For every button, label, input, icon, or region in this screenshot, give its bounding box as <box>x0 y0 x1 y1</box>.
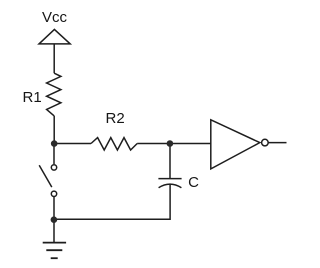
svg-text:Vcc: Vcc <box>42 9 68 26</box>
svg-text:R2: R2 <box>106 110 125 127</box>
svg-text:C: C <box>188 174 199 191</box>
svg-text:R1: R1 <box>23 89 42 106</box>
